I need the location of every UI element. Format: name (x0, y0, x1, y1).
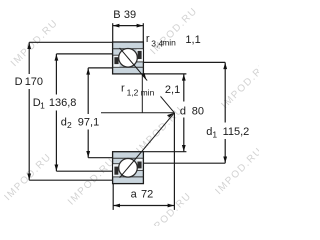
wire axis centerline (101, 112, 174, 114)
inner ring race edge (113, 66, 144, 68)
arrow d down (182, 145, 186, 152)
arrow d2 down (86, 151, 90, 158)
wire d1 leader top (143, 61, 225, 63)
svg-text:2,1: 2,1 (165, 84, 180, 96)
contact line upper (120, 48, 175, 113)
wire d1 dimension line (224, 62, 226, 122)
svg-text:1,1: 1,1 (185, 34, 200, 46)
svg-text:80: 80 (192, 106, 204, 118)
wire D leader top (29, 41, 112, 43)
wire D1 dimension line (55, 54, 57, 95)
cage bar right (138, 51, 142, 59)
wire D dimension line (28, 42, 30, 74)
svg-text:72: 72 (141, 188, 153, 200)
svg-text:d: d (180, 106, 186, 118)
wire B extension right (142, 23, 144, 42)
arrow contact upper (142, 73, 147, 80)
wire d1 leader bottom (143, 162, 225, 164)
wire d2 dimension line (87, 68, 89, 114)
arrow d1 up (223, 63, 227, 70)
wire a extension right (173, 113, 175, 210)
wire B dimension line (113, 25, 144, 27)
wire bore line bottom extension (143, 151, 186, 153)
contact line lower (120, 113, 175, 178)
svg-text:1: 1 (40, 101, 45, 111)
svg-text:1: 1 (212, 129, 217, 139)
wire d2 leader bottom (88, 157, 112, 159)
wire D1 leader bottom (56, 170, 112, 172)
svg-text:1,2: 1,2 (127, 88, 139, 98)
svg-text:min: min (141, 87, 155, 97)
arrow d1 down (223, 157, 227, 164)
cage pocket right (137, 49, 143, 61)
wire d dimension line (183, 74, 185, 102)
bearing cross-section upper (113, 42, 144, 74)
arrow a left (114, 204, 121, 208)
svg-text:min: min (162, 38, 176, 48)
arrow D up (27, 43, 31, 50)
white gap for r12 label (147, 80, 161, 96)
wire D leader bottom (29, 179, 112, 181)
pocket right edge (137, 61, 144, 63)
svg-text:d: d (61, 116, 67, 128)
arrow d2 up (86, 68, 90, 75)
svg-text:136,8: 136,8 (49, 97, 77, 109)
pocket left edge (113, 54, 120, 56)
svg-text:97,1: 97,1 (78, 116, 99, 128)
svg-text:r: r (146, 33, 150, 45)
ball (119, 49, 138, 68)
arrow B left (113, 24, 120, 28)
svg-text:2: 2 (67, 120, 72, 130)
arrow a right (168, 204, 175, 208)
wire a extension left (112, 184, 114, 210)
wire bearing right edge to axis (141, 74, 143, 113)
arrow D1 up (55, 54, 59, 61)
arrow B right (137, 24, 144, 28)
arrow d up (182, 74, 186, 81)
cage bar left (114, 57, 118, 64)
svg-text:B: B (113, 9, 120, 21)
wire bore line top extension (143, 73, 186, 75)
arrow D1 down (55, 165, 59, 172)
svg-text:a: a (131, 188, 138, 200)
wire B extension left (112, 23, 114, 42)
bearing cross-section lower (mirror) (113, 152, 144, 184)
svg-text:39: 39 (124, 9, 136, 21)
svg-text:D: D (15, 76, 23, 88)
svg-text:r: r (121, 82, 125, 94)
wire d2 leader top (88, 67, 112, 69)
cage pocket left (114, 56, 120, 67)
svg-text:170: 170 (25, 76, 43, 88)
wire D1 leader top (56, 53, 112, 55)
wire a dimension line (113, 205, 174, 207)
arrow D down (27, 174, 31, 181)
outer ring race edge (113, 48, 144, 50)
arrowheads (27, 24, 227, 208)
svg-text:115,2: 115,2 (223, 126, 250, 138)
arrow contact lower at P (167, 113, 174, 118)
